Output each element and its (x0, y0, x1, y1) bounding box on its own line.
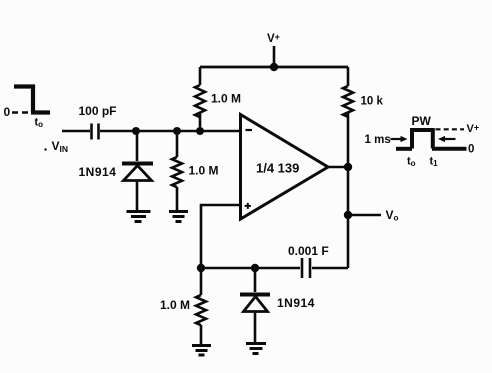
resistor R3 10k (V+ to output) (343, 67, 353, 167)
svg-text:0.001 F: 0.001 F (288, 244, 329, 258)
wire: feedback bottom run (left of C2) (201, 267, 300, 270)
svg-text:1N914: 1N914 (277, 296, 315, 310)
capacitor C1 plates (92, 124, 99, 140)
input step waveform (14, 85, 50, 113)
svg-text:1N914: 1N914 (79, 165, 117, 179)
arrow to falling edge (442, 138, 456, 140)
svg-text:1.0 M: 1.0 M (189, 164, 219, 178)
junction dot (output node) (344, 163, 352, 171)
wire: op-amp output to node (328, 166, 348, 169)
dot before VIN (44, 148, 46, 150)
svg-text:1 ms: 1 ms (365, 134, 391, 146)
svg-text:100 pF: 100 pF (79, 104, 117, 118)
svg-text:PW: PW (412, 114, 432, 128)
svg-text:10 k: 10 k (361, 96, 384, 108)
dashed V+ level line (436, 128, 465, 130)
capacitor C2 0.001F plates (302, 258, 310, 278)
diode D1 1N914 (122, 131, 153, 210)
junction dot (D2 node) (251, 264, 259, 272)
V+ rail wire (200, 66, 348, 69)
V+ stub wire (273, 46, 276, 67)
wire: VIN to C1 (62, 130, 90, 133)
resistor R2 1.0 M (inverting node to ground) (172, 131, 182, 210)
arrow to rising edge (391, 138, 402, 140)
wire: C1 to inverting input (100, 130, 240, 133)
ground (R2) (169, 212, 188, 222)
ground (D2) (246, 344, 266, 354)
node junction dot (R1) (196, 127, 204, 135)
diode D2 1N914 (240, 268, 270, 342)
resistor R1 1.0 M (V+ to inverting input) (195, 67, 205, 131)
op-amp minus input sign (246, 129, 253, 131)
ground (R4) (192, 346, 211, 356)
wire: plus input to feedback node (201, 205, 240, 268)
dashed zero reference line (12, 111, 30, 114)
junction dot (plus node) (197, 264, 205, 272)
resistor R4 1.0 M (plus node to ground) (196, 268, 206, 344)
node junction dot (R2) (173, 127, 181, 135)
svg-text:1/4 139: 1/4 139 (256, 161, 299, 176)
svg-text:0: 0 (4, 105, 11, 119)
junction dot (Vo node) (344, 211, 352, 219)
wire: feedback bottom run (right of C2) (312, 267, 348, 270)
output pulse waveform (396, 130, 467, 149)
wire: Vo stub (348, 214, 381, 217)
svg-text:1.0 M: 1.0 M (211, 92, 241, 106)
ground (D1) (127, 212, 151, 222)
op-amp U1 1/4 LM139 (241, 115, 329, 220)
node junction dot (C1/D1) (132, 127, 140, 135)
op-amp plus input sign (245, 203, 251, 209)
junction dot (V+ rail) (270, 63, 278, 71)
wire: output vertical run (347, 167, 350, 268)
svg-text:1.0 M: 1.0 M (160, 298, 190, 312)
svg-text:0: 0 (468, 143, 474, 155)
